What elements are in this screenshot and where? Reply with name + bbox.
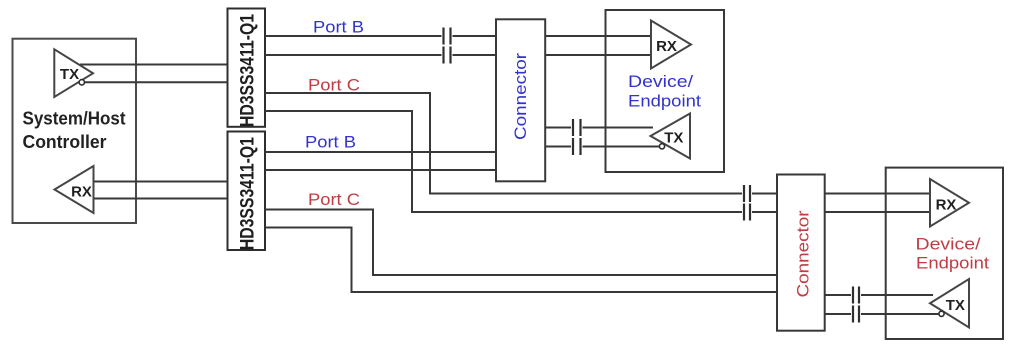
svg-text:Connector: Connector [794,210,813,297]
svg-text:TX: TX [60,66,79,83]
svg-text:Device/: Device/ [628,72,693,91]
svg-text:Endpoint: Endpoint [628,92,701,111]
svg-text:TX: TX [664,130,683,147]
svg-text:TX: TX [946,297,965,314]
svg-text:RX: RX [71,184,92,201]
svg-text:Device/: Device/ [916,235,981,254]
svg-text:RX: RX [936,196,957,213]
svg-text:HD3SS3411-Q1: HD3SS3411-Q1 [238,14,259,127]
svg-text:Port C: Port C [308,76,360,95]
svg-text:System/Host: System/Host [23,109,126,129]
svg-text:Endpoint: Endpoint [916,254,989,273]
svg-text:Port B: Port B [313,18,364,37]
svg-text:Controller: Controller [23,132,107,152]
svg-text:Connector: Connector [511,53,530,140]
svg-text:RX: RX [656,38,677,55]
svg-text:Port C: Port C [308,190,360,209]
svg-text:Port B: Port B [305,133,356,152]
svg-text:HD3SS3411-Q1: HD3SS3411-Q1 [238,137,259,250]
